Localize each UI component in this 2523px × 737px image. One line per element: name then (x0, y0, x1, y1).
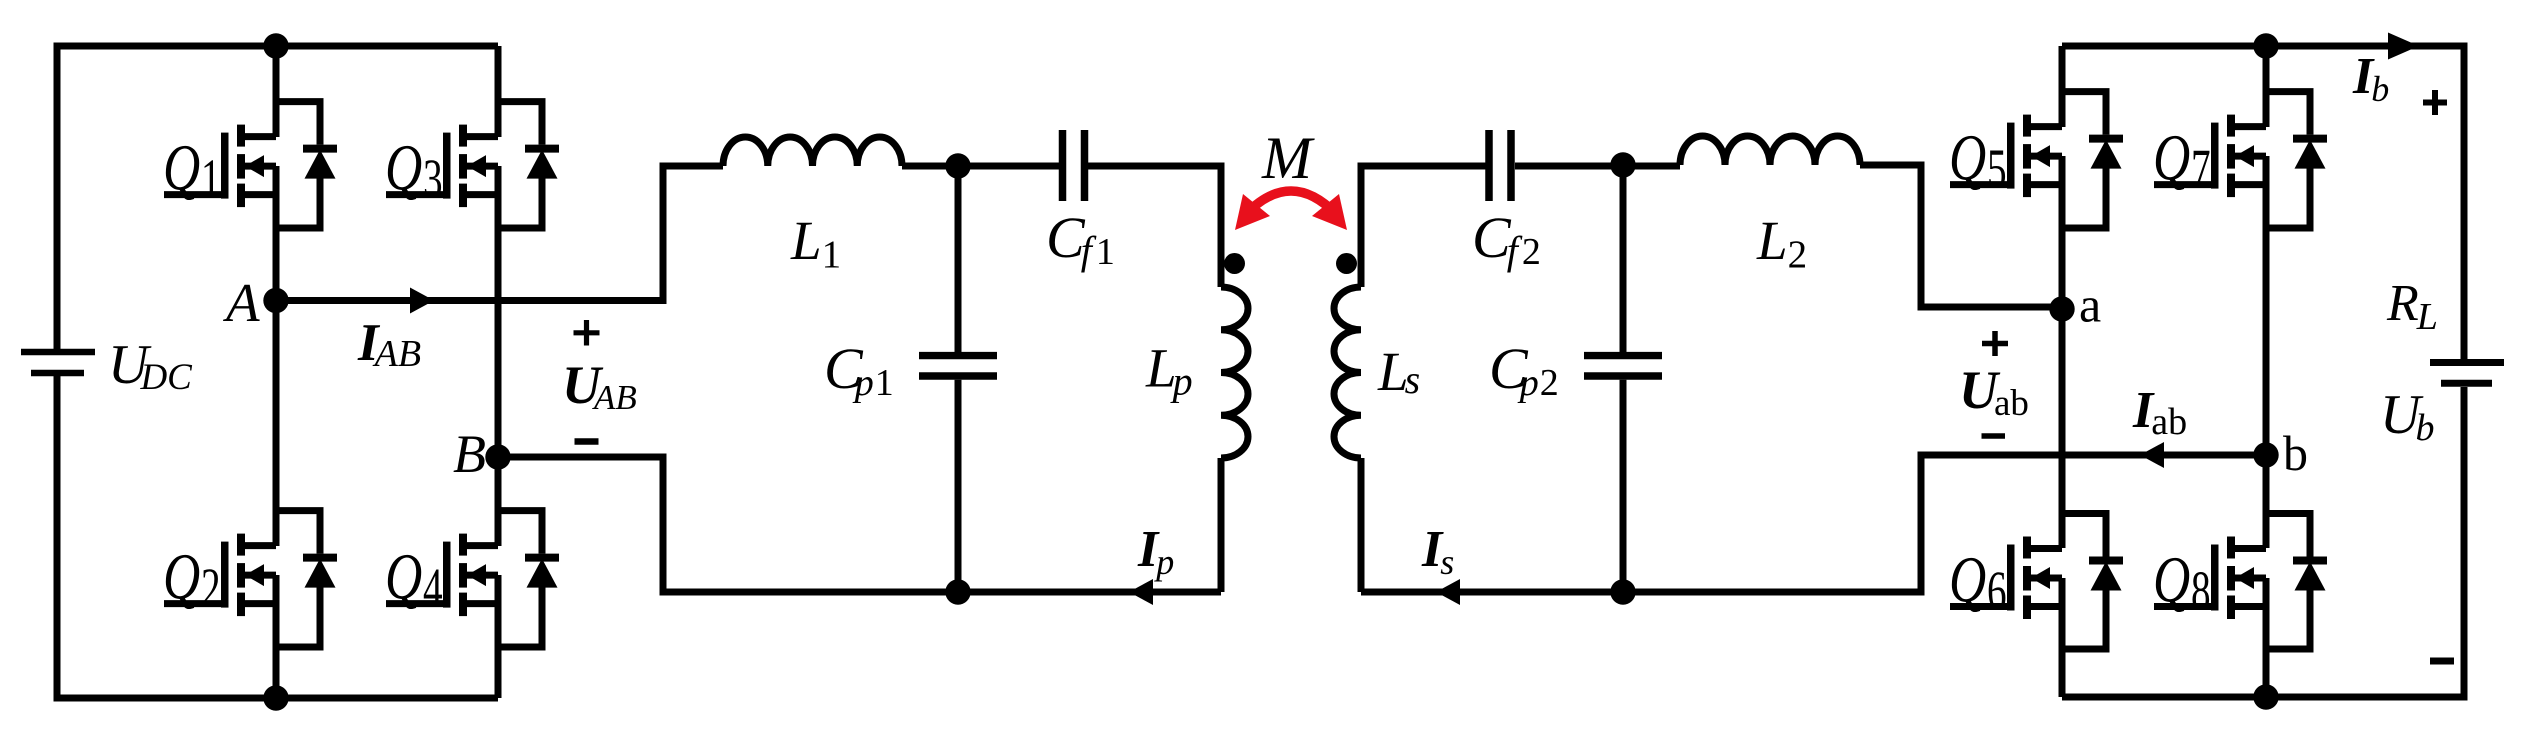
svg-text:Lp: Lp (1145, 338, 1193, 404)
svg-text:Q: Q (2153, 542, 2190, 616)
svg-text:Q: Q (1949, 542, 1986, 616)
body diode of Q1 (276, 102, 337, 228)
wire: node B to bottom loop (498, 457, 1221, 592)
wire: leg5 mid segment (2059, 156, 2066, 548)
body diode of Q4 (498, 511, 559, 647)
label Q8 (2153, 542, 2211, 622)
svg-text:8: 8 (2191, 561, 2211, 622)
svg-text:A: A (222, 272, 260, 333)
wire: leg2 source segment (495, 575, 502, 698)
svg-text:Ib: Ib (2352, 48, 2389, 109)
wire: Cp1 bottom lead (955, 380, 962, 592)
svg-text:Q: Q (2153, 120, 2190, 194)
wire: Cp2 top lead (1620, 165, 1627, 352)
wire: Ls bottom lead (1358, 458, 1365, 592)
svg-text:Cf1: Cf1 (1046, 205, 1115, 273)
svg-text:Cf2: Cf2 (1472, 205, 1541, 273)
body diode of Q8 (2266, 514, 2327, 650)
wire: leg7 mid segment (2263, 156, 2270, 548)
svg-text:Cp1: Cp1 (824, 336, 894, 404)
label + of U_b (2423, 90, 2447, 115)
svg-text:Ls: Ls (1377, 341, 1420, 402)
mutual coupling arrow M (1235, 191, 1347, 230)
svg-text:3: 3 (423, 149, 443, 210)
svg-text:5: 5 (1987, 139, 2007, 200)
transistor Q4 (386, 534, 498, 617)
svg-text:Uab: Uab (1959, 360, 2029, 424)
node a (2049, 296, 2074, 321)
wire: leg2 mid segment (495, 166, 502, 546)
svg-text:Is: Is (1421, 521, 1454, 582)
battery U_DC negative plate (31, 370, 84, 377)
wire: secondary bottom to node b (1361, 455, 2266, 592)
body diode of Q6 (2062, 514, 2123, 650)
wire: Cf1 to Lp top (1088, 166, 1221, 287)
svg-text:Ip: Ip (1137, 521, 1174, 582)
svg-text:RL: RL (2386, 275, 2438, 338)
transistor Q5 (1950, 115, 2062, 198)
wire: Cp1 top lead (955, 166, 962, 352)
capacitor Cf2 (1489, 130, 1511, 201)
svg-text:UAB: UAB (562, 355, 637, 417)
svg-text:1: 1 (201, 149, 221, 210)
battery U_b positive plate (2430, 359, 2504, 366)
arrowhead I_s (1436, 579, 1460, 605)
wire: top rail right (2062, 46, 2464, 359)
transistor Q2 (164, 534, 276, 617)
label - of U_b (2430, 658, 2454, 665)
svg-text:Iab: Iab (2132, 382, 2187, 443)
wire: dc bus bottom-left (57, 376, 498, 698)
wire: dc bus top-left (57, 46, 498, 349)
wire: Cp2 bottom lead (1620, 380, 1627, 592)
body diode of Q5 (2062, 92, 2123, 228)
body diode of Q3 (498, 102, 559, 228)
node: Cp1 bottom (945, 579, 970, 604)
polarity dot secondary (1336, 253, 1357, 274)
arrowhead I_AB (410, 288, 434, 314)
node: Cp2 top (1610, 152, 1635, 177)
svg-text:L1: L1 (790, 210, 841, 276)
body diode of Q2 (276, 511, 337, 647)
node: Cp2 bottom (1610, 579, 1635, 604)
svg-text:UDC: UDC (108, 334, 193, 398)
node: top rail / leg7 junction (2253, 33, 2278, 58)
node: bottom rail / leg7 junction (2253, 684, 2278, 709)
polarity dot primary (1224, 253, 1245, 274)
svg-text:a: a (2079, 277, 2101, 333)
wire: leg5 source segment (2059, 578, 2066, 697)
svg-text:Q: Q (385, 539, 422, 613)
wire: Ls top lead (1361, 166, 1486, 287)
inductor L1 (723, 137, 902, 166)
transistor Q8 (2154, 537, 2266, 620)
label + of U_AB (574, 320, 600, 346)
wire: leg5 drain segment (2059, 46, 2066, 127)
capacitor Cf1 (1063, 130, 1085, 201)
wire: node A to L1 branch (276, 166, 723, 301)
capacitor Cp1 (919, 356, 997, 376)
wire: L2 to node a (1860, 165, 2062, 307)
label Q7 (2153, 120, 2211, 200)
label - of U_AB (575, 438, 599, 445)
inductor Ls (secondary coil) (1334, 287, 1361, 458)
wire: L1 to Cf1 (902, 163, 1059, 170)
arrowhead I_b (2388, 33, 2419, 60)
svg-text:b: b (2283, 425, 2308, 481)
svg-text:Q: Q (385, 130, 422, 204)
svg-text:M: M (1261, 125, 1315, 191)
node B (485, 444, 510, 469)
wire: Lp bottom lead (1218, 458, 1225, 592)
transistor Q7 (2154, 115, 2266, 198)
arrowhead I_p (1129, 579, 1153, 605)
node: bottom rail / leg1 junction (263, 685, 288, 710)
node A (263, 288, 288, 313)
wire: Cf2 to L2 (1515, 163, 1680, 170)
transistor Q6 (1950, 537, 2062, 620)
svg-text:4: 4 (423, 558, 443, 619)
svg-text:Q: Q (163, 130, 200, 204)
inductor Lp (primary coil) (1221, 287, 1248, 458)
svg-text:L2: L2 (1756, 210, 1807, 276)
label - of U_ab (1982, 433, 2006, 439)
svg-text:7: 7 (2191, 139, 2211, 200)
label Q4 (385, 539, 443, 619)
capacitor Cp2 (1584, 356, 1662, 376)
label Q3 (385, 130, 443, 210)
node: Cp1 top (945, 153, 970, 178)
battery U_b negative plate (2441, 380, 2492, 387)
svg-text:Q: Q (1949, 120, 1986, 194)
arrowhead I_ab (2140, 442, 2164, 468)
svg-text:IAB: IAB (357, 314, 421, 375)
inductor L2 (1680, 136, 1860, 165)
label Q5 (1949, 120, 2007, 200)
wire: leg2 drain segment (495, 46, 502, 137)
label Q2 (163, 539, 221, 619)
wire: leg1 drain segment (273, 46, 280, 137)
label Q1 (163, 130, 221, 210)
svg-text:Ub: Ub (2380, 384, 2434, 449)
wire: leg7 drain segment (2263, 46, 2270, 127)
label + of U_ab (1982, 331, 2008, 356)
transistor Q3 (386, 125, 498, 208)
wire: leg1 mid segment (273, 166, 280, 546)
svg-text:6: 6 (1987, 561, 2007, 622)
wire: leg7 source segment (2263, 578, 2270, 697)
battery U_DC positive plate (21, 349, 95, 356)
body diode of Q7 (2266, 92, 2327, 228)
node b (2253, 442, 2278, 467)
svg-text:2: 2 (201, 558, 221, 619)
transistor Q1 (164, 125, 276, 208)
svg-text:B: B (453, 424, 486, 484)
wire: leg1 source segment (273, 575, 280, 698)
svg-text:Q: Q (163, 539, 200, 613)
label Q6 (1949, 542, 2007, 622)
svg-text:Cp2: Cp2 (1489, 336, 1559, 404)
wire: bottom rail right (2062, 387, 2464, 697)
node: top rail / leg1 junction (263, 33, 288, 58)
